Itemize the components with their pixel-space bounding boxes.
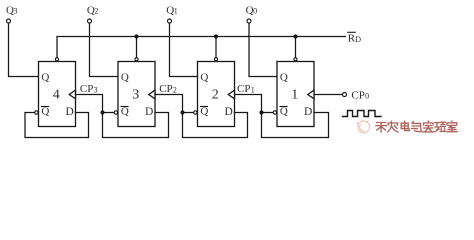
label CP3 xyxy=(80,83,98,95)
svg-text:1: 1 xyxy=(174,7,178,16)
svg-text:2: 2 xyxy=(94,7,98,16)
wire FF3 D feedback loop xyxy=(103,113,169,138)
label CP2 xyxy=(159,83,177,95)
junction dot CP3 node xyxy=(100,110,104,114)
svg-text:0: 0 xyxy=(365,92,369,101)
wire CP2: FF2 Qbar to FF3 clock xyxy=(155,95,194,113)
wire Q3 to FF4 Q output xyxy=(9,23,39,76)
svg-text:2: 2 xyxy=(212,88,219,103)
svg-text:Q: Q xyxy=(280,106,288,118)
label Q0 xyxy=(246,4,258,16)
wire CP3: FF3 Qbar to FF4 clock xyxy=(76,95,115,113)
watermark logo xyxy=(357,120,370,133)
svg-text:Q: Q xyxy=(121,71,129,83)
label Q2 xyxy=(87,4,99,16)
terminal Q0 xyxy=(247,19,251,23)
label Q3 xyxy=(6,4,18,16)
label Q1 xyxy=(166,4,178,16)
svg-text:Q: Q xyxy=(121,106,129,118)
wire FF2 D feedback loop xyxy=(183,113,248,138)
svg-text:Q: Q xyxy=(200,106,208,118)
svg-text:CP: CP xyxy=(351,89,364,101)
junction dot rail/FF2 xyxy=(214,34,218,38)
terminal Q3 xyxy=(7,19,11,23)
svg-text:1: 1 xyxy=(251,86,255,95)
wire CP1: FF1 Qbar to FF2 clock xyxy=(235,95,274,113)
wire rail drop to FF2 set bubble xyxy=(215,37,217,58)
junction dot rail/FF1 xyxy=(293,34,297,38)
wire FF1 D feedback loop xyxy=(262,113,329,138)
flip-flop U1 xyxy=(273,58,314,127)
junction dot CP1 node xyxy=(259,110,263,114)
svg-text:Q: Q xyxy=(280,71,288,83)
svg-text:Q: Q xyxy=(41,71,49,83)
wire Q1 to FF2 Q output xyxy=(170,23,198,76)
junction dot CP2 node xyxy=(180,110,184,114)
svg-text:3: 3 xyxy=(132,88,139,103)
flip-flop U4 xyxy=(35,58,76,127)
svg-text:3: 3 xyxy=(14,7,18,16)
svg-text:1: 1 xyxy=(291,88,298,103)
svg-text:D: D xyxy=(145,106,153,118)
svg-text:0: 0 xyxy=(253,7,257,16)
svg-text:D: D xyxy=(355,35,361,44)
terminal Q2 xyxy=(88,19,92,23)
wire rail drop to FF1 set bubble xyxy=(295,37,297,58)
wire CP0 input to FF1 clock xyxy=(314,94,342,96)
svg-text:CP: CP xyxy=(159,83,172,95)
label CP0 xyxy=(351,89,369,101)
overline of RD xyxy=(348,31,355,33)
svg-text:D: D xyxy=(66,106,74,118)
flip-flop U2 xyxy=(194,58,235,127)
svg-text:4: 4 xyxy=(53,88,60,103)
wire Q2 to FF3 Q output xyxy=(90,23,119,76)
svg-text:2: 2 xyxy=(173,86,177,95)
svg-text:D: D xyxy=(304,106,312,118)
terminal CP0 xyxy=(343,93,347,97)
svg-text:CP: CP xyxy=(237,83,250,95)
watermark text 东农电气实验室 xyxy=(376,121,457,132)
svg-text:Q: Q xyxy=(41,106,49,118)
clock waveform CP0 xyxy=(343,111,382,117)
wire FF4 Qbar feedback loop to D xyxy=(25,113,89,138)
label CP1 xyxy=(237,83,255,95)
wire Q0 to FF1 Q output xyxy=(249,23,277,76)
svg-text:Q: Q xyxy=(200,71,208,83)
flip-flop U3 xyxy=(114,58,155,127)
wire rail drop to FF3 set bubble xyxy=(136,37,138,58)
svg-text:3: 3 xyxy=(94,86,98,95)
terminal Q1 xyxy=(168,19,172,23)
label RD with overline xyxy=(348,33,362,45)
svg-text:D: D xyxy=(225,106,233,118)
svg-text:CP: CP xyxy=(80,83,93,95)
junction dot rail/FF3 xyxy=(134,34,138,38)
net RD reset rail xyxy=(57,37,346,58)
